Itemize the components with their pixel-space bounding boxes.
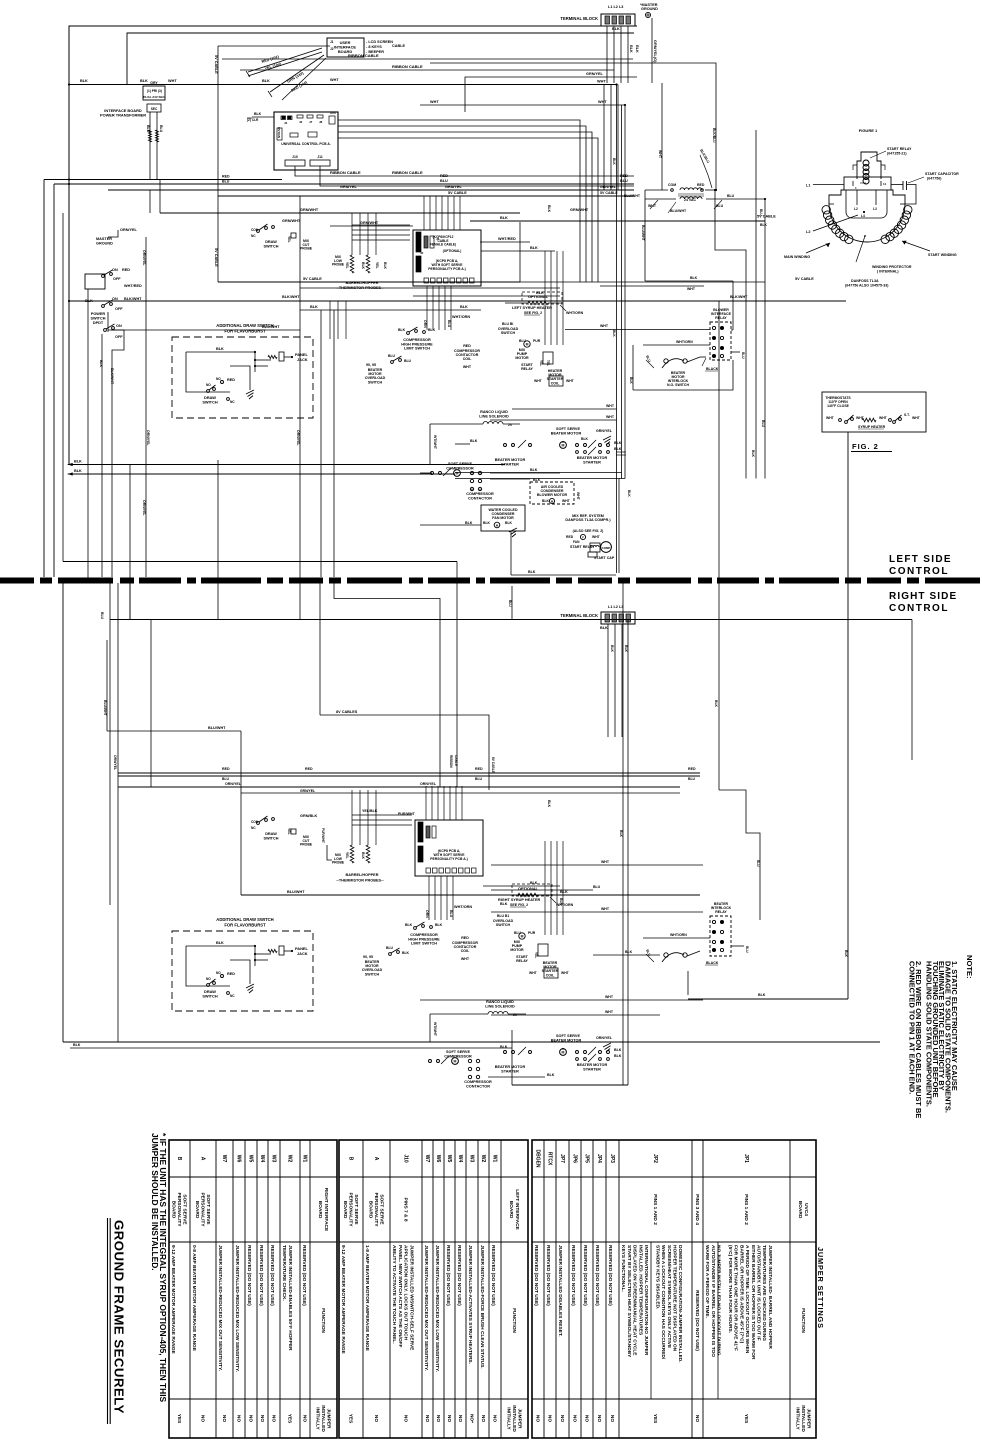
svg-text:WHT: WHT <box>826 416 835 420</box>
svg-text:BLK: BLK <box>398 328 406 332</box>
svg-text:GROUND FRAME SECURELY: GROUND FRAME SECURELY <box>112 1220 127 1414</box>
wire - 5V cable y282 right segment <box>560 281 765 283</box>
wire - cables from UCB to personality board <box>423 196 425 230</box>
wire - BLU/WHT path (bottom left) <box>106 640 108 731</box>
svg-text:TERMINAL BLOCK: TERMINAL BLOCK <box>560 613 598 618</box>
svg-text:BLK: BLK <box>542 499 550 503</box>
svg-text:YEL: YEL <box>539 360 543 366</box>
svg-text:BLU: BLU <box>100 612 104 620</box>
svg-text:BLU: BLU <box>727 194 735 198</box>
svg-text:M: M <box>454 1060 457 1064</box>
svg-text:PUR: PUR <box>533 339 541 343</box>
svg-text:JUMPER INSTALLED-REDUCED MIX L: JUMPER INSTALLED-REDUCED MIX LOW SENSITI… <box>434 1245 440 1372</box>
svg-text:YES: YES <box>348 1414 354 1424</box>
wire - 5V cable bus y196 <box>218 195 634 197</box>
svg-text:W4: W4 <box>259 1155 265 1163</box>
FIG.2 - body steps <box>829 190 844 204</box>
wire - cables into personality board (bottom) <box>425 786 427 820</box>
svg-text:J2: J2 <box>420 251 424 255</box>
FIG.2 - main winding coil (left) <box>845 235 853 243</box>
svg-text:WHT: WHT <box>592 535 601 539</box>
svg-text:LIMIT SWITCH: LIMIT SWITCH <box>411 942 437 946</box>
svg-text:NO: NO <box>236 1415 242 1422</box>
svg-text:BLU: BLU <box>447 320 451 328</box>
svg-text:J1: J1 <box>330 40 334 44</box>
svg-text:START WINDING: START WINDING <box>928 253 957 257</box>
svg-text:NO: NO <box>547 1415 553 1422</box>
svg-text:NO: NO <box>206 383 211 387</box>
svg-text:J10: J10 <box>403 1154 409 1163</box>
wire - top diagram right frame x746 <box>745 322 747 479</box>
svg-text:RELAY: RELAY <box>521 367 533 371</box>
svg-text:BLK: BLK <box>547 205 551 213</box>
svg-text:SWITCH: SWITCH <box>264 244 279 248</box>
svg-text:BLK: BLK <box>402 951 410 955</box>
svg-text:U: U <box>479 488 481 492</box>
svg-text:M: M <box>562 444 565 448</box>
svg-text:NO: NO <box>302 1415 308 1422</box>
svg-text:SWITCH: SWITCH <box>264 836 279 840</box>
svg-text:CONTACTOR: CONTACTOR <box>468 496 492 500</box>
svg-text:BLK: BLK <box>383 262 387 270</box>
svg-text:(OPTIONAL): (OPTIONAL) <box>443 249 462 253</box>
svg-text:OFF: OFF <box>113 277 121 281</box>
svg-text:NO: NO <box>559 1415 565 1422</box>
svg-text:COIL: COIL <box>546 973 555 977</box>
svg-text:RED: RED <box>222 767 230 771</box>
svg-text:JP6: JP6 <box>572 1154 578 1163</box>
svg-text:BLU: BLU <box>386 946 394 950</box>
svg-text:BLU: BLU <box>645 355 652 363</box>
wire - BLK bus y464 <box>68 464 505 466</box>
svg-text:BLK: BLK <box>614 1048 622 1052</box>
svg-text:WHT: WHT <box>601 860 610 864</box>
wire - probe wiring mesh <box>351 213 353 255</box>
svg-text:WHT: WHT <box>605 995 614 999</box>
wire - bottom frame lines <box>63 1041 880 1043</box>
svg-text:INSTALLED: INSTALLED <box>320 1405 326 1432</box>
svg-text:CON: CON <box>251 820 259 824</box>
wire - power switch return x88 <box>87 289 89 580</box>
svg-text:BLK: BLK <box>460 305 468 309</box>
svg-text:SOFT SERVE: SOFT SERVE <box>205 1194 211 1225</box>
svg-text:BLK: BLK <box>547 1073 555 1077</box>
svg-text:RESERVED (DO NOT USE): RESERVED (DO NOT USE) <box>594 1245 600 1306</box>
svg-text:GROUND: GROUND <box>641 7 658 11</box>
svg-text:JUMPER: JUMPER <box>326 1409 332 1430</box>
svg-text:WT/WHT: WT/WHT <box>433 1022 437 1037</box>
wire - BLU/BLU bus y63 to transformer <box>430 63 716 190</box>
svg-text:BLU: BLU <box>475 777 483 781</box>
svg-text:RED: RED <box>697 183 705 187</box>
svg-text:STARTER: STARTER <box>501 1069 519 1073</box>
wire - ORN/YEL bus y787 <box>118 786 680 788</box>
svg-text:A: A <box>200 1157 206 1161</box>
svg-text:NO: NO <box>424 1415 430 1422</box>
FIG.2 - motor terminal box <box>844 177 891 190</box>
UCB J10 J11 connectors <box>285 160 305 166</box>
svg-text:SOFT SERVE: SOFT SERVE <box>379 1194 385 1225</box>
svg-text:NO: NO <box>609 1415 615 1422</box>
svg-text:RED (14#): RED (14#) <box>291 80 309 93</box>
svg-text:W2: W2 <box>287 1155 293 1163</box>
svg-text:BLK: BLK <box>614 441 622 445</box>
svg-text:BLK: BLK <box>600 626 608 630</box>
svg-text:BLK: BLK <box>714 700 718 708</box>
svg-text:BLK/WHT: BLK/WHT <box>124 297 142 301</box>
svg-text:GRN/YEL: GRN/YEL <box>586 72 604 76</box>
wire - transformer right path <box>715 190 746 322</box>
wire - BLK buses y473/479 <box>490 472 560 474</box>
svg-text:JACK: JACK <box>297 357 308 362</box>
wire - BLK bus y220 right <box>470 220 765 222</box>
terminal block TB2 (bottom) <box>601 612 635 624</box>
svg-text:WHT: WHT <box>168 79 177 83</box>
svg-text:NO: NO <box>492 1415 498 1422</box>
svg-text:RESERVED (DO NOT USE): RESERVED (DO NOT USE) <box>301 1245 307 1306</box>
personality board PCB-A (top) <box>413 230 481 286</box>
svg-text:BOARD: BOARD <box>508 1201 514 1219</box>
svg-text:BLK: BLK <box>612 27 620 31</box>
table UVC4 - frame <box>532 1140 816 1438</box>
svg-text:1-8 AMP BEATER MOTOR AMPERAGE: 1-8 AMP BEATER MOTOR AMPERAGE RANGE <box>364 1245 370 1352</box>
beater motor interlock N.O. switch (top) <box>664 359 668 363</box>
svg-text:CABLE: CABLE <box>454 755 458 766</box>
wire - GRN/YEL bus y793 <box>241 792 680 794</box>
svg-text:WHT: WHT <box>606 415 615 419</box>
wire - WHT buses entering right cluster (bottom) <box>491 864 703 866</box>
personality board PCB-A (bottom) <box>415 820 483 876</box>
wire - BLK to UCB <box>252 116 274 118</box>
svg-text:PERSONALITY: PERSONALITY <box>176 1192 182 1227</box>
svg-text:BLK: BLK <box>361 262 365 270</box>
svg-text:BLK: BLK <box>470 439 478 443</box>
svg-text:NO: NO <box>480 1415 486 1422</box>
svg-text:AUTO/STANDBY. UNIT IS LOCKED O: AUTO/STANDBY. UNIT IS LOCKED OUT IF <box>756 1245 762 1341</box>
water cooled condenser fan motor <box>481 505 525 531</box>
svg-text:RED: RED <box>566 535 574 539</box>
svg-text:BLU: BLU <box>645 949 652 957</box>
svg-text:WARM FOR A PERIOD OF TIME.: WARM FOR A PERIOD OF TIME. <box>704 1245 710 1318</box>
table UVC4 - JP2 internal divider <box>650 1242 652 1399</box>
svg-text:BLK: BLK <box>530 881 538 885</box>
svg-text:F: F <box>582 536 584 540</box>
svg-text:YES: YES <box>743 1414 749 1424</box>
svg-text:ORN/YEL: ORN/YEL <box>225 782 242 786</box>
svg-text:8V CABLE: 8V CABLE <box>491 757 495 773</box>
svg-text:ADDITIONAL DRAW SWITCH: ADDITIONAL DRAW SWITCH <box>216 917 273 922</box>
svg-text:W5: W5 <box>446 1155 452 1163</box>
svg-text:RELAY: RELAY <box>715 910 727 914</box>
svg-text:SOFT SERVE: SOFT SERVE <box>182 1194 188 1225</box>
svg-text:(647155-21): (647155-21) <box>887 152 907 156</box>
svg-text:BLU: BLU <box>388 354 396 358</box>
svg-text:BLK: BLK <box>629 45 633 53</box>
svg-text:WHT/ORN: WHT/ORN <box>556 903 574 907</box>
svg-text:BLACK: BLACK <box>706 961 719 965</box>
svg-text:A PERIOD OF TIME. LOCKOUT OCCU: A PERIOD OF TIME. LOCKOUT OCCURS WHEN <box>744 1245 750 1354</box>
svg-text:DPDT: DPDT <box>93 321 104 325</box>
svg-text:INITIALLY: INITIALLY <box>794 1407 800 1430</box>
wire - bottom connector drops <box>426 286 428 330</box>
svg-text:(ALSO SEE FIG. 2): (ALSO SEE FIG. 2) <box>573 529 604 533</box>
wire - BLK bus y474 <box>68 473 455 475</box>
wire - verticals x321/x334 <box>320 310 322 577</box>
svg-text:NO: NO <box>216 971 221 975</box>
svg-text:ON: ON <box>112 268 118 272</box>
svg-text:NO: NO <box>446 1415 452 1422</box>
UCB NVRAM <box>277 128 282 140</box>
table UVC4 - JP1 internal divider <box>717 1242 719 1399</box>
svg-text:WHT: WHT <box>600 324 609 328</box>
svg-text:RESERVED (DO NOT USE): RESERVED (DO NOT USE) <box>545 1245 551 1306</box>
svg-text:BLK: BLK <box>581 437 589 441</box>
svg-text:AUTO/STANDBY IF BARREL OR HOPP: AUTO/STANDBY IF BARREL OR HOPPER IS TOO <box>710 1245 716 1357</box>
svg-text:ORN/YEL: ORN/YEL <box>296 430 300 446</box>
svg-text:BLOWER MOTOR: BLOWER MOTOR <box>537 493 568 497</box>
svg-text:START CAPACITOR: START CAPACITOR <box>925 172 959 176</box>
svg-text:RTCX: RTCX <box>547 1152 553 1166</box>
svg-text:BLK/WHT: BLK/WHT <box>110 368 114 385</box>
wire - x719 vertical crossing divider <box>718 301 720 790</box>
svg-text:GRN/WHT: GRN/WHT <box>282 219 301 223</box>
svg-text:RESERVED (DO NOT USE): RESERVED (DO NOT USE) <box>607 1245 613 1306</box>
svg-text:J4: J4 <box>284 121 288 125</box>
svg-text:PERSONALITY: PERSONALITY <box>348 1192 354 1227</box>
svg-text:W2: W2 <box>480 1155 486 1163</box>
svg-text:DISPLAYED ON SCREEN/MANUAL HEA: DISPLAYED ON SCREEN/MANUAL HEAT CYCLE <box>632 1245 638 1356</box>
svg-text:AUX: AUX <box>330 111 336 115</box>
beater motor interlock N.O. switch (bottom) <box>664 953 668 957</box>
wire - L1 L2 L3 drops x604-618 <box>603 85 605 191</box>
svg-text:BOARD: BOARD <box>367 1201 373 1219</box>
wire - GRN/YEL riser <box>651 18 653 83</box>
svg-text:RIGHT SYRUP HEATER: RIGHT SYRUP HEATER <box>498 898 541 902</box>
svg-text:RESERVED (DO NOT USE): RESERVED (DO NOT USE) <box>258 1245 264 1306</box>
wire - RED/BLU buses y773-776 <box>118 772 700 774</box>
air cooled condenser blower motor <box>530 482 574 504</box>
svg-text:JUMPER INSTALLED DISABLES RESE: JUMPER INSTALLED DISABLES RESET. <box>557 1245 563 1337</box>
svg-text:(5°C) FOR MORE THAN FOUR HOURS: (5°C) FOR MORE THAN FOUR HOURS. <box>727 1245 733 1333</box>
wire - left vertical x63 <box>62 213 64 562</box>
svg-text:CONTROL: CONTROL <box>889 603 949 614</box>
svg-text:BLK: BLK <box>690 276 698 280</box>
svg-text:BLK: BLK <box>505 521 513 525</box>
svg-text:PINS 7 & 8: PINS 7 & 8 <box>403 1198 409 1222</box>
svg-text:KEYS FUNCTIONAL.: KEYS FUNCTIONAL. <box>620 1245 626 1292</box>
svg-text:WHT: WHT <box>601 907 610 911</box>
svg-text:ORN/YEL: ORN/YEL <box>420 782 437 786</box>
svg-text:JP4: JP4 <box>596 1154 602 1163</box>
svg-text:PINS 1 AND 2: PINS 1 AND 2 <box>652 1194 658 1225</box>
svg-text:BLK: BLK <box>610 645 614 653</box>
wire - x849 crossing divider <box>847 432 849 999</box>
wire - WHT y329/y346 left extensions <box>565 329 710 331</box>
svg-text:TERMINAL BLOCK: TERMINAL BLOCK <box>560 16 598 21</box>
svg-text:SEE FIG. 2: SEE FIG. 2 <box>524 311 542 315</box>
svg-text:PUR: PUR <box>528 931 536 935</box>
svg-text:YEL: YEL <box>375 262 379 269</box>
resistor - probe resistors (bottom) <box>350 845 354 863</box>
svg-text:BLK: BLK <box>99 360 103 368</box>
svg-text:BLK: BLK <box>629 377 633 384</box>
svg-text:INSTALLED. HOPPER TEMPERATURE: INSTALLED. HOPPER TEMPERATURES <box>637 1245 643 1336</box>
wire - y472/478 pair <box>455 472 622 474</box>
svg-text:NO: NO <box>221 1415 227 1422</box>
svg-text:WHT: WHT <box>562 499 571 503</box>
wire - BLK/WHT bus into relay <box>645 280 733 282</box>
svg-text:START RELAY: START RELAY <box>887 147 912 151</box>
svg-text:GRY: GRY <box>150 81 158 85</box>
svg-text:BLK: BLK <box>614 1054 622 1058</box>
svg-text:BLU/WHT: BLU/WHT <box>287 890 305 894</box>
svg-text:RIGHT INTERFACE: RIGHT INTERFACE <box>323 1188 329 1232</box>
wire - WHT/ORN into relay <box>643 344 710 346</box>
divider dashed line <box>0 578 982 584</box>
svg-text:PROBE: PROBE <box>332 861 345 865</box>
svg-text:BLU: BLU <box>741 352 745 359</box>
wire - BLK bus y1077 (bottom) <box>488 1076 545 1078</box>
svg-text:GRN/YEL: GRN/YEL <box>300 789 315 793</box>
svg-text:W1: W1 <box>302 1155 308 1163</box>
svg-text:L1 L2 L3: L1 L2 L3 <box>608 605 623 609</box>
svg-text:NO: NO <box>596 1415 602 1422</box>
svg-text:NVRAM: NVRAM <box>277 126 281 138</box>
svg-text:RESERVED (DO NOT USE): RESERVED (DO NOT USE) <box>582 1245 588 1306</box>
svg-text:NO: NO <box>259 1415 265 1422</box>
wire - vertical cluster x616-626 <box>616 85 618 574</box>
svg-text:SEE FIG. 2: SEE FIG. 2 <box>510 903 528 907</box>
wire - mesh around compressor cluster (top) <box>300 281 560 283</box>
svg-text:WHT/ORN: WHT/ORN <box>452 315 470 319</box>
svg-text:BLK: BLK <box>262 79 270 83</box>
svg-text:SWITCH: SWITCH <box>202 400 218 405</box>
svg-text:FUNCTION: FUNCTION <box>511 1308 517 1333</box>
svg-text:JP3: JP3 <box>609 1154 615 1163</box>
svg-text:GRN/YEL: GRN/YEL <box>596 429 613 433</box>
svg-text:SWITCH: SWITCH <box>496 923 511 927</box>
svg-text:W3: W3 <box>271 1155 277 1163</box>
svg-text:JP5: JP5 <box>584 1154 590 1163</box>
svg-text:DRAW: DRAW <box>265 240 277 244</box>
svg-text:J2: J2 <box>299 120 303 124</box>
svg-text:COM: COM <box>668 183 676 187</box>
svg-text:WHT: WHT <box>598 100 607 104</box>
svg-text:NO: NO <box>535 1415 541 1422</box>
svg-text:HANDLING SOLID STATE COMPONENT: HANDLING SOLID STATE COMPONENTS. <box>924 961 933 1107</box>
wire - 5V cable drop <box>217 46 219 282</box>
svg-text:RED: RED <box>688 767 696 771</box>
svg-text:BOARD: BOARD <box>797 1201 803 1219</box>
svg-text:SWITCH: SWITCH <box>202 994 218 999</box>
svg-text:WHT: WHT <box>463 365 472 369</box>
svg-text:COIL: COIL <box>463 357 472 361</box>
svg-text:BLK: BLK <box>614 447 622 451</box>
svg-text:CON: CON <box>251 228 259 232</box>
wire - BLU/WHT bus y330 <box>108 329 300 331</box>
universal control board UCB-A <box>274 112 338 170</box>
svg-text:PUR/WHT: PUR/WHT <box>321 828 325 843</box>
svg-text:GRN/BLK: GRN/BLK <box>300 814 318 818</box>
wire - BLK bus y444 with starter <box>455 443 470 445</box>
wire - x623 bus pair (bottom) <box>622 583 624 1085</box>
svg-text:FUNCTION: FUNCTION <box>320 1308 326 1333</box>
svg-text:RED: RED <box>440 174 448 178</box>
svg-text:STARTER: STARTER <box>583 460 601 464</box>
mix cut probe <box>291 233 296 238</box>
svg-text:SWITCH: SWITCH <box>368 380 383 384</box>
svg-text:JUMPER: JUMPER <box>806 1409 812 1430</box>
wire - ORN/YEL long vertical x150 <box>149 190 151 213</box>
FIG.2 - stator bowl <box>829 204 905 242</box>
FIG.2 - inner rotor box <box>846 190 887 218</box>
svg-text:RESERVED (DO NOT USE): RESERVED (DO NOT USE) <box>694 1290 700 1351</box>
wire - relay output path (bottom) <box>688 998 848 1000</box>
svg-text:SWITCH: SWITCH <box>501 331 516 335</box>
svg-text:5V CABLE: 5V CABLE <box>795 277 814 281</box>
wire - ORN/YEL riser left <box>145 237 147 577</box>
svg-text:WHT: WHT <box>461 957 470 961</box>
svg-text:BLU BI: BLU BI <box>502 322 513 326</box>
svg-text:BLK: BLK <box>465 521 473 525</box>
svg-text:BLU: BLU <box>759 209 763 216</box>
svg-text:MASTER: MASTER <box>96 237 112 241</box>
svg-text:BLU/WHT: BLU/WHT <box>103 700 107 717</box>
svg-text:WHT: WHT <box>879 416 888 420</box>
FIG.2 - start relay hat outline <box>857 152 881 179</box>
svg-text:CABLE: CABLE <box>392 44 406 48</box>
svg-text:W7: W7 <box>424 1155 430 1163</box>
svg-text:L4: L4 <box>861 214 865 218</box>
svg-text:WHT/ORN: WHT/ORN <box>566 311 584 315</box>
wire - BLU path to relay (bottom) <box>719 790 760 920</box>
svg-text:RELAY: RELAY <box>516 959 528 963</box>
svg-text:BLK: BLK <box>74 460 82 464</box>
wire - vertical x300 (ORN/YEL) <box>299 196 301 620</box>
svg-text:W1: W1 <box>492 1155 498 1163</box>
svg-text:NC: NC <box>251 234 256 238</box>
svg-text:JUMPER INSTALLED-REDUCED MIX O: JUMPER INSTALLED-REDUCED MIX OUT SENSITI… <box>217 1245 223 1371</box>
svg-text:BLK: BLK <box>500 902 508 906</box>
svg-text:WHT: WHT <box>687 287 696 291</box>
svg-text:BLU/WHT: BLU/WHT <box>641 225 645 242</box>
optional left syrup heater <box>522 292 562 304</box>
svg-text:9-12 AMP BEATER MOTOR AMPERAGE: 9-12 AMP BEATER MOTOR AMPERAGE RANGE <box>340 1245 346 1354</box>
svg-text:ORN/YEL: ORN/YEL <box>142 500 146 516</box>
svg-text:NO: NO <box>572 1415 578 1422</box>
svg-text:PROBE: PROBE <box>300 843 313 847</box>
svg-text:JACK: JACK <box>297 951 308 956</box>
svg-text:POWER: POWER <box>91 312 106 316</box>
wire - BLU stub x512 <box>511 586 513 620</box>
svg-text:9-12 AMP BEATER MOTOR AMPERAGE: 9-12 AMP BEATER MOTOR AMPERAGE RANGE <box>170 1245 176 1354</box>
svg-text:GRN/WHT: GRN/WHT <box>360 221 379 225</box>
table LIB - frame <box>339 1140 528 1438</box>
svg-text:SCREEN/HEAT SYMBOL KEYS ONLY A: SCREEN/HEAT SYMBOL KEYS ONLY ACTIVE <box>666 1245 672 1349</box>
svg-text:UNIVERSAL CONTROL PCB A.: UNIVERSAL CONTROL PCB A. <box>281 142 331 146</box>
wire - y575 BLK bus <box>511 574 616 576</box>
wire - WHT bus y105 <box>420 104 625 106</box>
svg-text:24 VAC: 24 VAC <box>684 198 696 202</box>
svg-text:BLK: BLK <box>760 223 768 227</box>
svg-text:NO: NO <box>216 377 221 381</box>
svg-text:BLK/WHT: BLK/WHT <box>282 295 300 299</box>
svg-text:JUMPER INSTALLED-ENABLES 50°F: JUMPER INSTALLED-ENABLES 50°F HOPPER <box>287 1245 293 1351</box>
svg-text:90, 95: 90, 95 <box>366 363 376 367</box>
wire - BLK/WHT bus y301 <box>69 300 846 302</box>
svg-text:WHT: WHT <box>330 78 339 82</box>
svg-text:FUNCTION: FUNCTION <box>800 1308 806 1333</box>
